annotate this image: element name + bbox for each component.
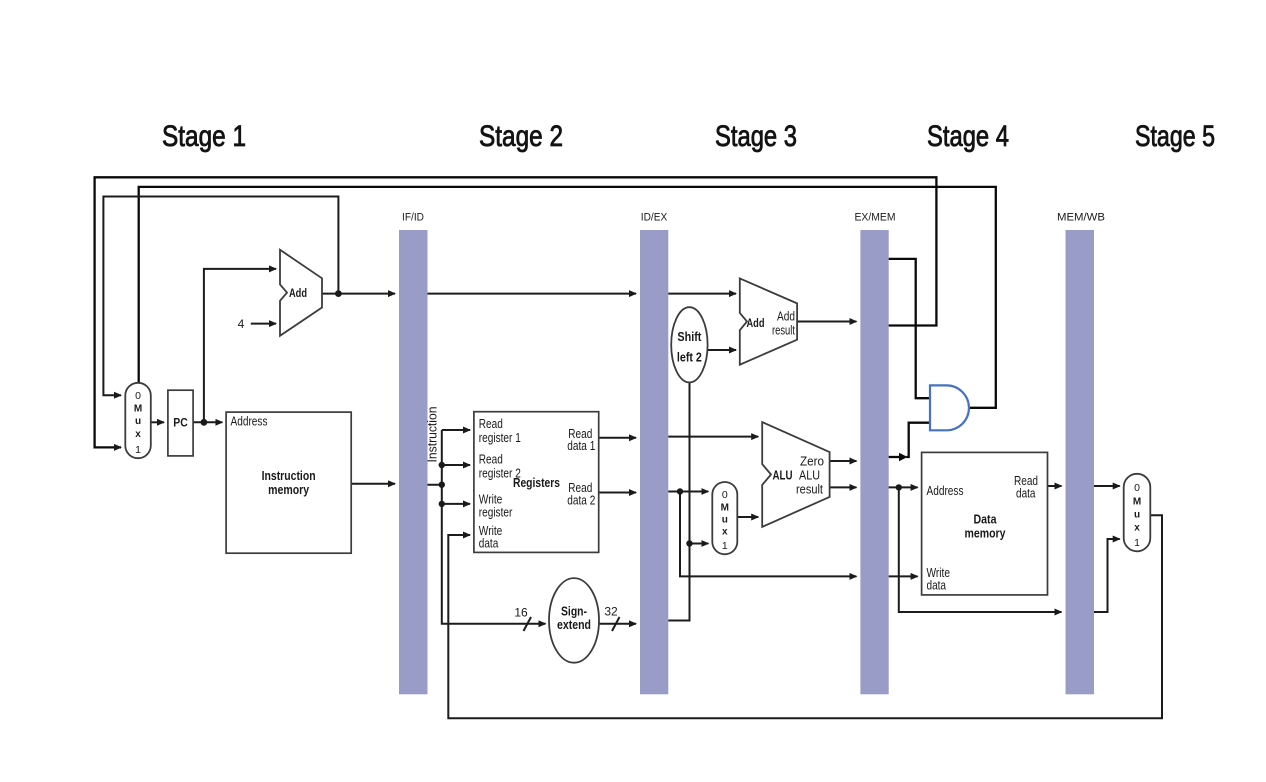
svg-text:M: M — [721, 503, 729, 514]
svg-text:Stage 3: Stage 3 — [715, 120, 797, 153]
svg-text:Stage 2: Stage 2 — [479, 120, 563, 153]
svg-text:Add: Add — [289, 286, 307, 300]
wire: ALU result EX/MEM to data memory Address — [889, 486, 918, 488]
svg-text:ALU: ALU — [773, 469, 793, 483]
svg-text:MEM/WB: MEM/WB — [1057, 212, 1105, 224]
svg-text:ID/EX: ID/EX — [641, 212, 668, 224]
wire: Zero flag EX/MEM to AND gate — [889, 456, 900, 458]
wire: constant 4 to Add — [251, 323, 276, 325]
pipeline register IF/ID — [399, 212, 428, 695]
svg-text:Address: Address — [231, 414, 268, 428]
wire: immediate branch to ALU mux input 1 — [690, 543, 709, 545]
junction ALU result branch — [896, 484, 902, 490]
wire: instruction to Read register 1 — [442, 429, 470, 431]
svg-text:Instruction: Instruction — [262, 468, 316, 483]
junction immediate to ALU mux — [686, 540, 692, 546]
wire: shift left 2 to branch Add — [707, 349, 736, 351]
wire: instruction memory to IF/ID — [351, 483, 395, 485]
adder Add (PC+4) — [280, 250, 322, 336]
wire: Read data 2 down to EX/MEM write data — [680, 492, 856, 577]
sign-extend unit — [549, 578, 599, 663]
svg-text:data: data — [479, 537, 499, 551]
wire: Add output to IF/ID — [322, 293, 395, 295]
svg-text:u: u — [722, 515, 728, 526]
svg-text:4: 4 — [238, 317, 245, 331]
svg-text:Address: Address — [927, 484, 964, 498]
svg-text:Add: Add — [777, 310, 795, 324]
wire: Read data MEM/WB to WB mux input 0 — [1094, 485, 1120, 487]
svg-text:0: 0 — [135, 390, 141, 402]
svg-text:Zero: Zero — [800, 455, 824, 469]
wire: PC+4 ID/EX to branch Add — [668, 293, 736, 295]
svg-text:Read: Read — [479, 453, 503, 467]
wire: branch Add result to EX/MEM — [797, 321, 856, 323]
svg-text:Stage 1: Stage 1 — [162, 120, 246, 153]
svg-text:memory: memory — [268, 482, 310, 497]
adder Add (branch target) — [740, 278, 797, 364]
svg-text:1: 1 — [722, 540, 728, 552]
wire: Read data 2 to ID/EX — [599, 492, 636, 494]
mux M3 (ALU operand mux) — [712, 482, 737, 554]
svg-text:Read: Read — [479, 417, 503, 431]
svg-text:Data: Data — [974, 512, 998, 527]
svg-text:result: result — [772, 324, 795, 338]
wire: instruction to Write register — [442, 503, 470, 505]
wire: Read data 1 to ID/EX — [599, 437, 636, 439]
svg-text:data 2: data 2 — [567, 493, 595, 507]
svg-text:PC: PC — [173, 415, 188, 429]
wire: Read data 1 ID/EX to ALU — [668, 436, 758, 438]
junction instruction main — [439, 482, 445, 488]
svg-text:Instruction: Instruction — [426, 406, 440, 462]
svg-text:Shift: Shift — [677, 329, 702, 344]
wire: write data EX/MEM to data memory — [889, 575, 918, 577]
svg-text:u: u — [1134, 510, 1140, 521]
svg-text:1: 1 — [1134, 537, 1140, 549]
wire: write-back mux output to Registers Write data — [448, 515, 1162, 718]
svg-text:32: 32 — [604, 605, 618, 619]
svg-text:x: x — [1134, 523, 1140, 534]
data memory — [922, 452, 1048, 595]
wire: PC riser to Add input — [204, 269, 276, 422]
svg-text:register: register — [479, 506, 513, 520]
shift left 2 unit — [671, 307, 707, 382]
svg-text:Write: Write — [479, 493, 503, 507]
wire: branch control AND output to PC mux select — [139, 187, 996, 408]
junction on Add output — [335, 290, 342, 297]
wire: sign-extend output to ID/EX — [599, 623, 636, 625]
svg-text:IF/ID: IF/ID — [402, 212, 424, 224]
junction Read data 2 branch — [677, 488, 683, 494]
wire: branch signal EX/MEM to AND gate — [889, 259, 930, 398]
svg-text:Add: Add — [747, 316, 765, 330]
wire: immediate ID/EX to shift left 2 riser — [668, 382, 689, 620]
bus width slash 16 — [524, 617, 532, 631]
wire: PC+4 IF/ID to ID/EX — [428, 293, 637, 295]
svg-text:16: 16 — [514, 606, 528, 620]
svg-text:memory: memory — [965, 526, 1007, 541]
wire: instruction down to sign-extend — [442, 485, 546, 624]
wire: branch target EX/MEM to PC mux input 1 — [95, 177, 937, 447]
wire: Read data 2 ID/EX to ALU mux input 0 — [668, 491, 708, 493]
wire: ALU result to EX/MEM — [830, 486, 857, 488]
svg-text:extend: extend — [557, 617, 591, 632]
svg-text:data: data — [927, 579, 947, 593]
svg-text:Stage 5: Stage 5 — [1135, 120, 1215, 153]
svg-text:data: data — [1016, 487, 1036, 501]
svg-text:Registers: Registers — [513, 475, 560, 490]
svg-text:x: x — [722, 527, 728, 538]
ALU — [762, 422, 829, 527]
svg-text:1: 1 — [135, 444, 141, 456]
wire: instruction to Read register 2 — [442, 464, 470, 466]
svg-text:u: u — [135, 416, 141, 427]
wire: data memory Read data to MEM/WB — [1048, 485, 1062, 487]
wire: PC+4 Add output to PC mux input 0 — [103, 197, 338, 396]
svg-text:data 1: data 1 — [567, 439, 595, 453]
svg-text:0: 0 — [722, 489, 728, 501]
pipeline register MEM/WB — [1057, 212, 1105, 695]
junction instruction to Read register 2 — [439, 462, 445, 468]
svg-text:x: x — [135, 429, 141, 440]
register PC — [168, 390, 193, 456]
instruction memory — [226, 412, 351, 553]
svg-text:left 2: left 2 — [677, 350, 702, 365]
junction instruction to Write register — [439, 501, 445, 507]
wire: instruction bus from IF/ID — [428, 430, 442, 485]
pipeline register EX/MEM — [855, 212, 896, 695]
AND gate (branch condition) — [930, 385, 969, 430]
svg-text:M: M — [1133, 497, 1141, 508]
svg-text:ALU: ALU — [799, 469, 820, 483]
wire: PC to instruction memory Address — [193, 421, 222, 423]
mux M5 (write-back mux) — [1124, 474, 1151, 552]
pipeline register ID/EX — [640, 212, 668, 695]
svg-text:M: M — [134, 404, 142, 415]
wire: PC mux to PC — [151, 421, 164, 423]
svg-text:result: result — [796, 483, 823, 497]
wire: ALU result MEM/WB to WB mux input 1 — [1094, 539, 1120, 612]
wire: ALU result bypass to MEM/WB — [899, 487, 1062, 612]
svg-text:0: 0 — [1134, 482, 1140, 494]
svg-text:register 1: register 1 — [479, 431, 521, 445]
wire: ALU Zero to EX/MEM — [830, 460, 857, 462]
registers — [474, 412, 599, 553]
svg-text:Stage 4: Stage 4 — [927, 120, 1009, 153]
bus width slash 32 — [612, 617, 620, 631]
junction on PC output — [201, 419, 208, 426]
mux M1 (PC source mux) — [125, 383, 151, 458]
wire: ALU mux output to ALU — [737, 516, 758, 518]
svg-text:EX/MEM: EX/MEM — [855, 212, 896, 224]
